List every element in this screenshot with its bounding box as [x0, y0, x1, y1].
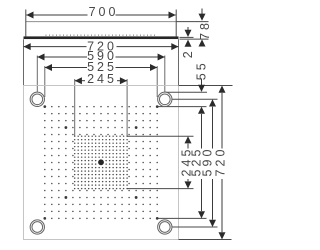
- dimension 245 vertical top arrow: [185, 136, 192, 143]
- side view: right housing edge and 700 extension line: [175, 10, 177, 37]
- dimension 700 right arrow: [169, 12, 176, 19]
- dimension 590 right arrow: [158, 54, 165, 61]
- 245 extension line left: [74, 79, 76, 136]
- dimension 590 top line: [37, 56, 87, 58]
- ext tick: screw circle center top for dim 590: [165, 98, 218, 100]
- 525 extension line right: [156, 66, 158, 97]
- svg-text:245: 245: [87, 72, 117, 86]
- screw hole circle 4: [158, 220, 172, 234]
- dimension 525 top line: [45, 67, 87, 69]
- ext tick: bar top lip for dim 2: [180, 36, 194, 38]
- dimension 720 top line: [24, 46, 87, 48]
- side view: nozzle tick row: [46, 34, 158, 36]
- 720 extension line right: [178, 39, 180, 85]
- ext tick: screw circle center bottom for dim 590: [165, 226, 218, 228]
- 245 extension line right: [126, 79, 128, 136]
- corner nozzle dots: [43, 105, 46, 108]
- screw hole circle 2: [158, 92, 172, 106]
- ext tick: nozzle field bottom for dim 525: [157, 217, 206, 219]
- dimension 78 bottom arrow: [199, 39, 206, 46]
- sparse nozzle dot grid: [51, 106, 53, 108]
- 590 extension line left: [36, 56, 38, 100]
- dimension 720 vertical top arrow: [219, 86, 226, 93]
- dimension 55 line: [201, 79, 203, 86]
- ext tick: housing top to 78 dim: [176, 21, 208, 23]
- dimension 700 left arrow: [26, 12, 33, 19]
- svg-text:590: 590: [201, 147, 215, 177]
- dimension 525 vertical top arrow: [198, 107, 205, 114]
- dimension 2 bottom arrow: [185, 40, 192, 47]
- dimension 525 right arrow: [150, 64, 157, 71]
- 720 extension line left: [23, 39, 25, 85]
- dimension 78 line: [201, 9, 203, 15]
- ext tick: bar bottom for dims 2 and 78: [180, 38, 209, 40]
- ext tick: dense field bottom for dim 245: [127, 188, 193, 190]
- svg-text:78: 78: [198, 20, 212, 40]
- dimension 2 top arrow: [185, 30, 192, 37]
- svg-text:2: 2: [181, 48, 195, 58]
- ext tick: dense field top for dim 245: [127, 135, 193, 137]
- dimension 245 right arrow: [120, 77, 127, 84]
- ext tick: nozzle field top for dim 525: [157, 106, 206, 108]
- dimension 245 top line: [75, 80, 85, 82]
- dimension 590 vertical top arrow: [209, 99, 216, 106]
- dimension 2 line: [187, 27, 189, 31]
- dimension 590 vertical bottom arrow: [209, 220, 216, 227]
- dimension 525 left arrow: [45, 64, 52, 71]
- dimension 720 right arrow: [171, 43, 178, 50]
- plan view plate outline: [24, 86, 179, 240]
- side view: left housing edge and 700 extension line: [25, 10, 27, 37]
- dimension 720 left arrow: [24, 43, 31, 50]
- dense nozzle dot grid: [74, 135, 75, 136]
- ext tick: plate bottom edge for dim 720: [179, 239, 232, 241]
- svg-text:55: 55: [195, 60, 209, 80]
- svg-text:700: 700: [89, 5, 119, 19]
- screw hole circle 1: [30, 92, 44, 106]
- 525 extension line left: [44, 66, 46, 97]
- dimension 78 top arrow: [199, 14, 206, 21]
- side view: face plate bar: [24, 36, 179, 39]
- dimension 700 line: [26, 14, 87, 16]
- side view: housing top line: [26, 21, 176, 23]
- screw hole circle 3: [30, 220, 44, 234]
- dimension 590 left arrow: [37, 54, 44, 61]
- dimension 525 vertical bottom arrow: [198, 211, 205, 218]
- dimension 720 vertical bottom arrow: [219, 232, 226, 239]
- svg-text:720: 720: [214, 147, 228, 177]
- center outlet dot: [98, 159, 104, 165]
- ext tick: screw circle top tangent for dim 55: [165, 91, 207, 93]
- dimension 245 vertical bottom arrow: [185, 181, 192, 188]
- dimension 245 left arrow: [75, 77, 82, 84]
- special larger nozzle dots: [64, 126, 67, 129]
- dimension 55 arrow: [198, 85, 205, 92]
- 590 extension line right: [164, 56, 166, 100]
- ext tick: plate top edge for dims 55 and 720: [179, 85, 233, 87]
